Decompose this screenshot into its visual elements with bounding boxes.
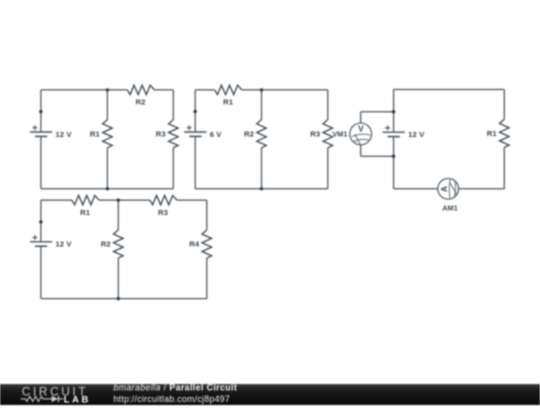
svg-text:R1: R1 [487,129,498,138]
svg-text:R3: R3 [310,129,320,138]
svg-text:VM1: VM1 [332,130,347,139]
svg-text:http://circuitlab.com/cj8p497: http://circuitlab.com/cj8p497 [113,394,230,404]
svg-text:12 V: 12 V [55,240,72,249]
svg-text:V: V [358,123,364,133]
svg-text:AM1: AM1 [442,204,457,213]
svg-text:6 V: 6 V [210,130,223,139]
svg-text:R1: R1 [223,98,234,107]
svg-text:R1: R1 [80,208,91,217]
svg-text:R3: R3 [156,129,166,138]
svg-text:R4: R4 [189,240,200,249]
svg-text:12 V: 12 V [55,130,72,139]
svg-text:R2: R2 [135,98,145,107]
svg-text:R1: R1 [90,129,101,138]
svg-text:12 V: 12 V [408,130,425,139]
svg-text:bmarabella / Parallel Circuit: bmarabella / Parallel Circuit [113,383,237,393]
svg-text:R3: R3 [158,208,168,217]
svg-text:R2: R2 [244,129,254,138]
svg-text:LAB: LAB [64,393,91,404]
svg-text:A: A [439,186,449,192]
svg-text:R2: R2 [101,240,111,249]
